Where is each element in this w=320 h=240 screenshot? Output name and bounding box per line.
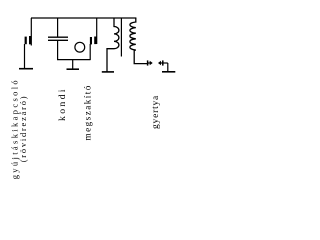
- capacitor C bottom plate: [48, 39, 68, 41]
- wire top rail: [31, 17, 136, 19]
- wire bottom line: [57, 59, 91, 61]
- spark plug left electrode: [147, 60, 149, 65]
- wire capacitor branch: [57, 18, 59, 37]
- wire breaker to top rail: [96, 18, 98, 44]
- capacitor C top plate: [48, 36, 68, 38]
- transformer primary winding: [107, 18, 119, 72]
- transformer core: [120, 19, 122, 57]
- switch contact left bar: [25, 37, 27, 45]
- spark plug right electrode: [158, 61, 161, 65]
- breaker cam circle: [75, 42, 85, 52]
- svg-text:(rövidrezáró): (rövidrezáró): [18, 95, 28, 163]
- svg-text:gyertya: gyertya: [151, 95, 161, 129]
- wire spark plug to ground: [163, 62, 168, 64]
- breaker contact right bar: [94, 37, 96, 45]
- breaker contact left bar: [90, 37, 92, 44]
- svg-text:kondi: kondi: [57, 87, 68, 121]
- wire left drop to switch: [30, 18, 32, 46]
- ground (switch): [19, 68, 33, 70]
- ground (spark plug): [162, 71, 175, 73]
- transformer secondary winding: [130, 18, 148, 64]
- wire switch to ground: [24, 44, 26, 69]
- ground (primary): [102, 71, 114, 73]
- wire breaker to bottom line: [89, 44, 91, 60]
- ground (center stub): [72, 60, 74, 69]
- svg-text:megszakító: megszakító: [83, 84, 93, 140]
- wire capacitor to bottom line: [57, 40, 59, 60]
- switch contact right bar: [29, 36, 31, 44]
